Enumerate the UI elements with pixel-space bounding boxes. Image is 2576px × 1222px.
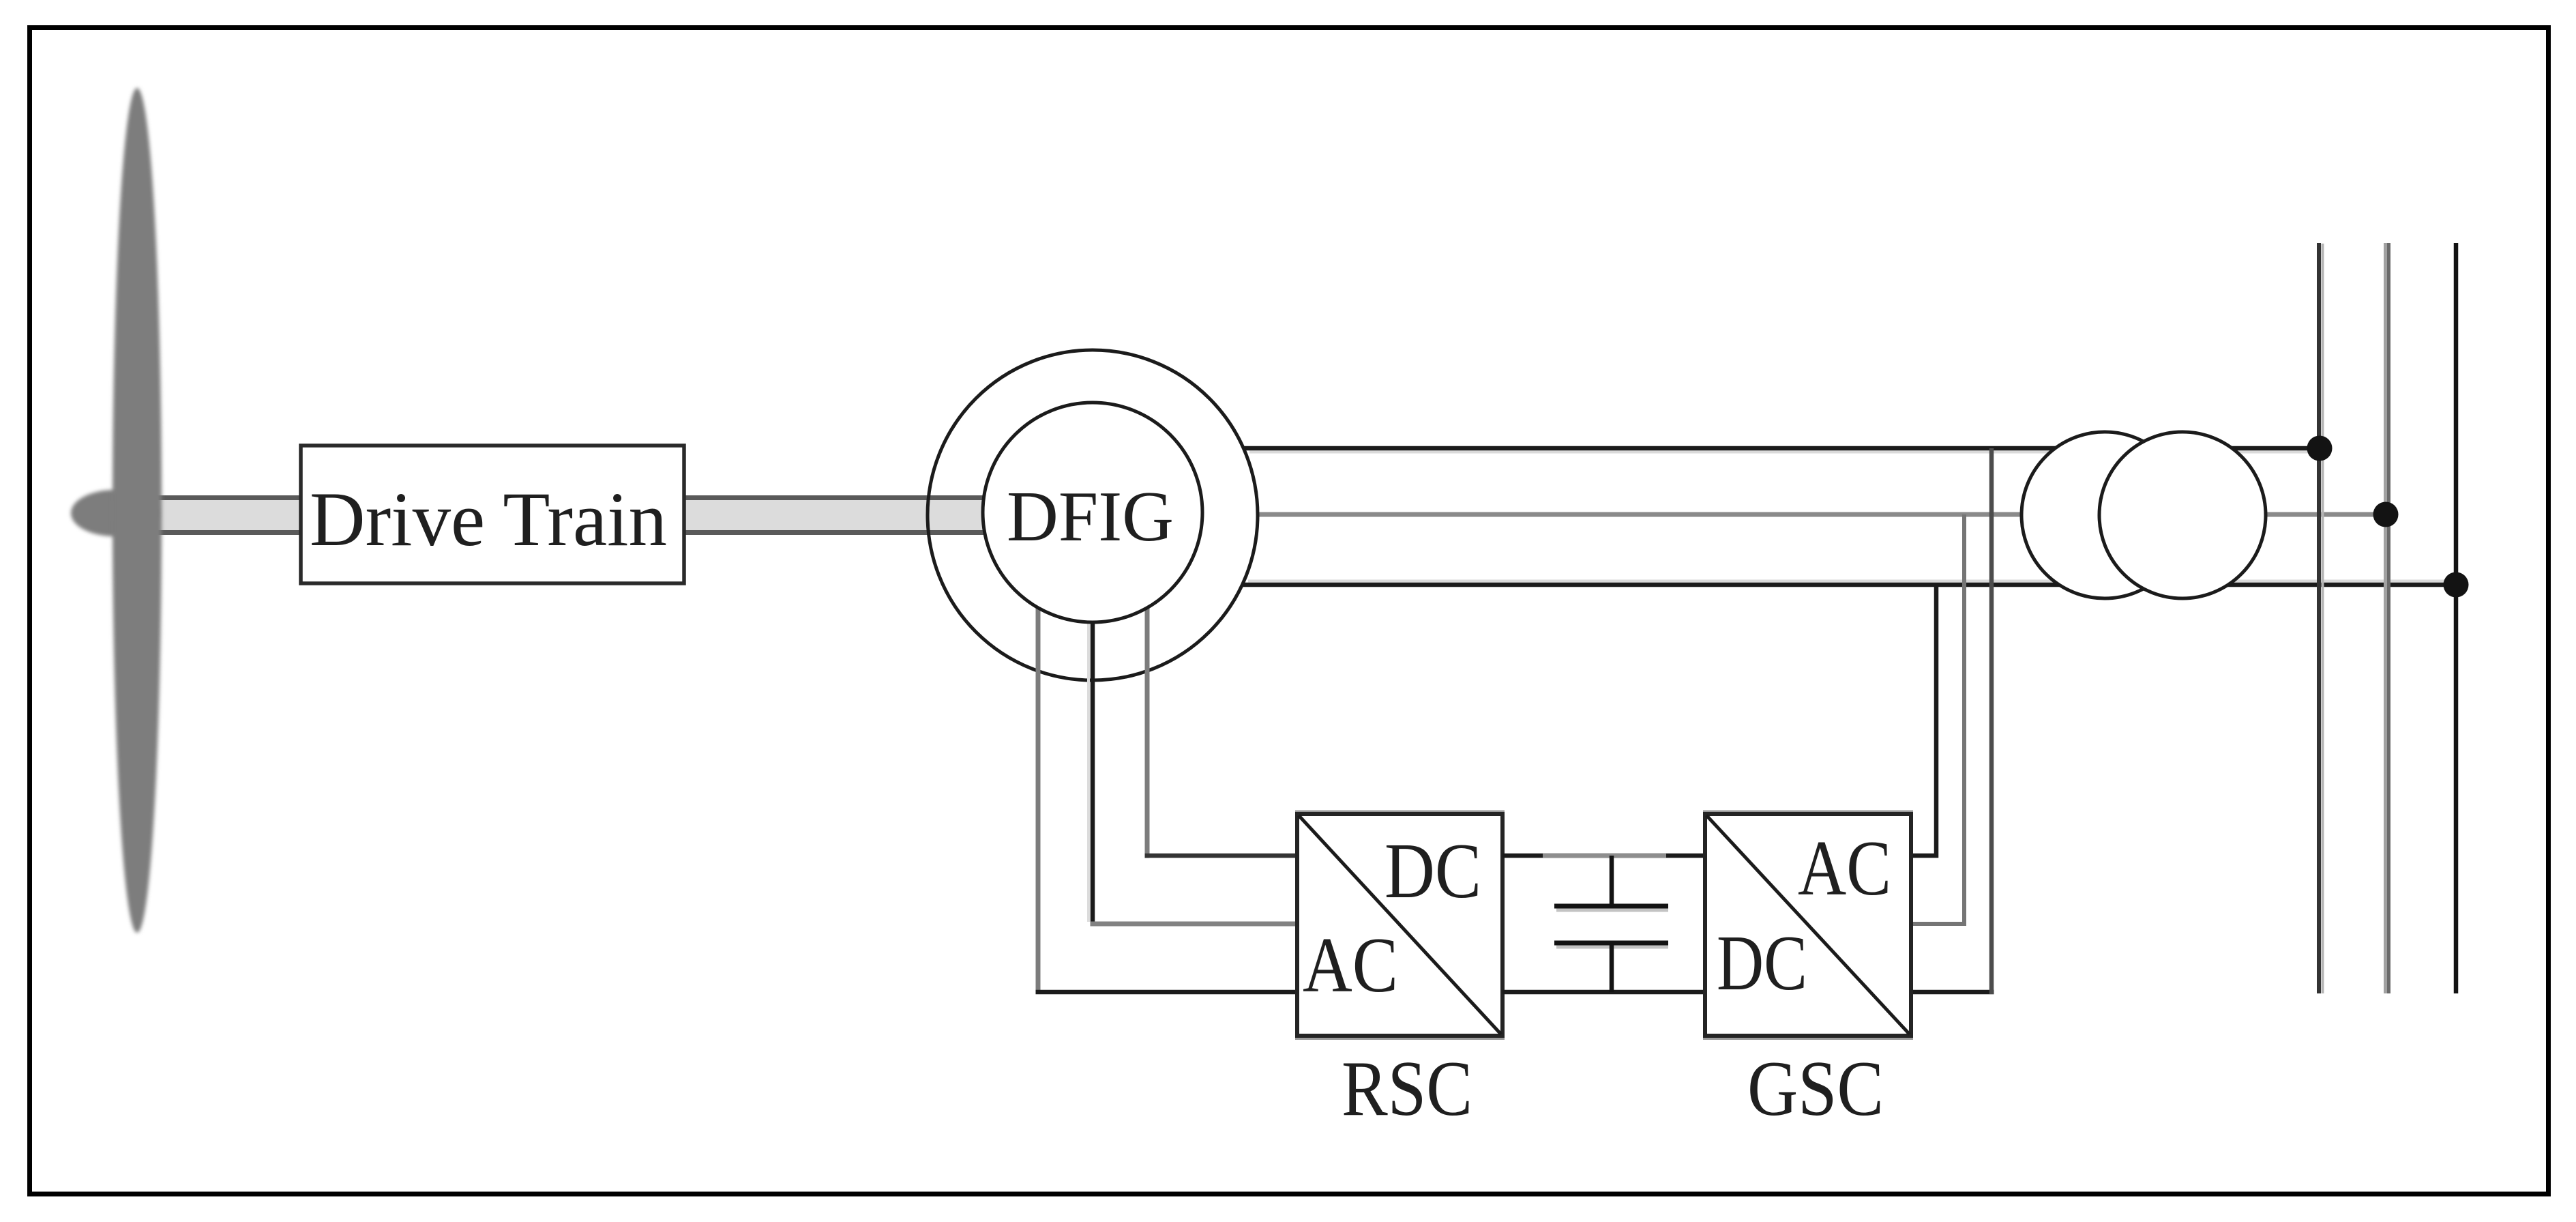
capacitor C1 bottom stem bbox=[1610, 943, 1614, 992]
grid bus line 3 bbox=[2454, 243, 2459, 993]
converter U2 GSC box bbox=[1703, 812, 1913, 1038]
capacitor C1 top plate bbox=[1554, 904, 1668, 909]
converter U1 RSC box bbox=[1295, 812, 1505, 1038]
rotor wire b vertical shadow bbox=[1087, 617, 1090, 922]
junction dot node C bbox=[2444, 572, 2469, 598]
DFIG inner rotor circle bbox=[983, 403, 1202, 622]
stator wire a (top) bbox=[1243, 446, 2320, 451]
shaft bbox=[123, 495, 988, 535]
GSC riser wire 3 horizontal bbox=[1911, 990, 1994, 995]
GSC riser wire 1 bbox=[1911, 585, 1936, 856]
transformer T1 secondary circle bbox=[2099, 432, 2266, 598]
svg-text:AC: AC bbox=[1798, 825, 1891, 912]
transformer T1 primary circle bbox=[2022, 432, 2188, 598]
DC link wire gray segment bbox=[1543, 854, 1666, 858]
svg-text:DC: DC bbox=[1717, 920, 1807, 1007]
rotor wire c horizontal bbox=[1145, 854, 1298, 858]
rotor wire a vertical bbox=[1036, 599, 1041, 994]
svg-text:RSC: RSC bbox=[1342, 1045, 1472, 1133]
stator wire b (middle) bbox=[1258, 512, 2386, 517]
svg-text:GSC: GSC bbox=[1747, 1045, 1884, 1133]
turbine hub bbox=[71, 490, 158, 536]
svg-text:DFIG: DFIG bbox=[1007, 476, 1174, 556]
GSC diagonal bbox=[1706, 815, 1910, 1034]
rotor wire a horizontal bbox=[1036, 990, 1298, 995]
svg-text:Drive Train: Drive Train bbox=[310, 477, 667, 562]
RSC diagonal bbox=[1299, 815, 1501, 1034]
stator wire a shadow bbox=[1249, 451, 2315, 454]
capacitor C1 bottom plate bbox=[1554, 941, 1668, 946]
svg-text:DC: DC bbox=[1385, 828, 1481, 915]
svg-text:AC: AC bbox=[1303, 922, 1398, 1009]
junction dot node B bbox=[2373, 502, 2399, 527]
stator wire c shadow bbox=[1248, 580, 2452, 583]
GSC riser wire 3 vertical bbox=[1989, 448, 1994, 994]
stator wire c (bottom) bbox=[1242, 583, 2456, 587]
GSC riser wire 2 bbox=[1911, 514, 1964, 924]
capacitor C1 bottom plate shadow bbox=[1556, 946, 1668, 949]
grid bus line 1 bbox=[2319, 243, 2323, 993]
wind turbine blade bbox=[113, 88, 162, 933]
grid bus line 2 bbox=[2386, 243, 2389, 993]
capacitor C1 top plate shadow bbox=[1556, 909, 1668, 912]
drive train box bbox=[301, 446, 684, 583]
DC link wire top bbox=[1502, 854, 1705, 858]
DFIG outer stator circle bbox=[928, 350, 1258, 680]
DC link wire bottom bbox=[1502, 990, 1705, 995]
capacitor C1 top stem bbox=[1610, 856, 1614, 906]
junction dot node A bbox=[2307, 436, 2333, 461]
rotor wire b vertical bbox=[1091, 614, 1095, 927]
rotor wire c vertical bbox=[1145, 599, 1150, 858]
rotor wire b horizontal bbox=[1091, 922, 1298, 927]
